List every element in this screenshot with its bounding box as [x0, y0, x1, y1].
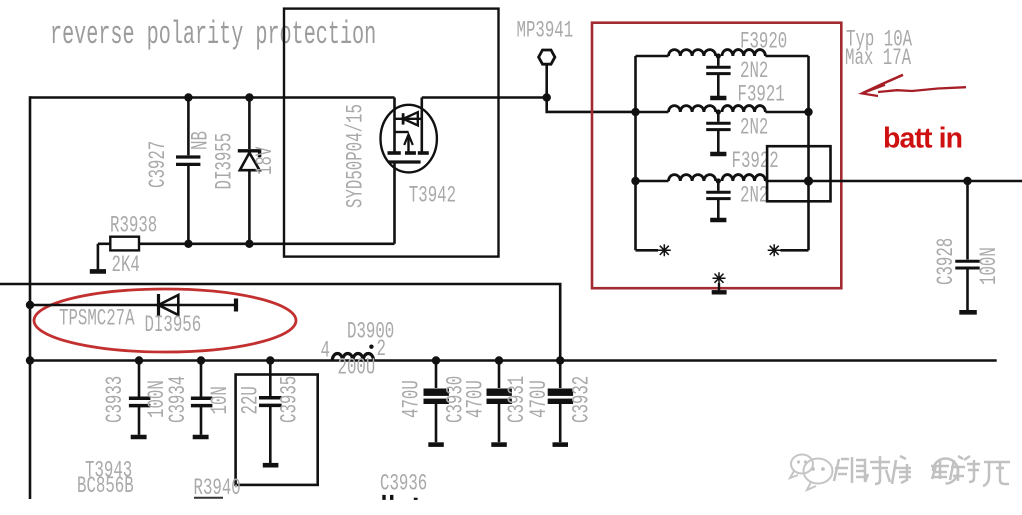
- svg-text:470U: 470U: [526, 380, 552, 418]
- svg-text:TPSMC27A: TPSMC27A: [59, 306, 135, 332]
- inductor D3900: [332, 345, 373, 361]
- label 2N2 row3: [740, 183, 768, 209]
- label T3943: [85, 458, 132, 484]
- wire: filter right rail: [807, 56, 810, 250]
- connector MP3941 hexagon: [539, 50, 555, 64]
- svg-text:C3934: C3934: [165, 376, 191, 423]
- label F3921: [738, 82, 785, 108]
- inductor F3922 row3: [636, 175, 766, 181]
- label 10N: [207, 386, 233, 414]
- label BC856B: [77, 473, 134, 499]
- wire: jog down from MP3941 node to filter row 2: [547, 98, 636, 112]
- zener diode D13955 18V: [238, 98, 260, 244]
- svg-text:batt in: batt in: [883, 123, 962, 155]
- capacitor C3928: [955, 181, 979, 312]
- label D3900: [347, 319, 394, 345]
- label C3934: [165, 376, 191, 423]
- black box on F3922 output: [767, 146, 830, 201]
- svg-text:2K4: 2K4: [112, 252, 140, 278]
- label pin 2: [377, 336, 386, 362]
- red highlight ellipse: [34, 289, 296, 352]
- label C3935: [277, 376, 303, 423]
- svg-text:DI3956: DI3956: [145, 312, 202, 338]
- capacitor C3934: [191, 356, 213, 437]
- node: C3927 bottom: [184, 240, 192, 248]
- label C3936: [380, 471, 427, 497]
- label F3922: [732, 148, 779, 174]
- label MP3941: [517, 18, 574, 44]
- watermark icon speech bubbles: [790, 455, 834, 492]
- component outline box for MOSFET module T3942: [284, 9, 499, 257]
- node: bottom bus left: [26, 356, 34, 364]
- label C3928: [933, 238, 959, 285]
- node: row2 right rail: [804, 108, 812, 116]
- label SYD50P04/15: [343, 104, 369, 208]
- node: C3927 top: [184, 93, 192, 101]
- wire: filter right bottom stub: [781, 249, 809, 252]
- label 18V: [252, 146, 278, 175]
- svg-text:C3933: C3933: [102, 376, 128, 423]
- capacitor C3933: [129, 356, 151, 437]
- svg-text:Max 17A: Max 17A: [845, 45, 911, 71]
- svg-text:C3935: C3935: [277, 376, 303, 423]
- svg-text:reverse polarity protection: reverse polarity protection: [50, 17, 376, 54]
- svg-text:470U: 470U: [399, 380, 425, 418]
- label 2K4: [112, 252, 140, 278]
- label 100N c3933: [144, 380, 170, 418]
- label 100N c3928: [976, 247, 1002, 285]
- capacitor C3935: [259, 356, 282, 465]
- net flag asterisk bottom center: [712, 272, 727, 292]
- label DI3955: [212, 133, 238, 190]
- capacitor 2N2 row1: [706, 53, 730, 98]
- svg-text:C3932: C3932: [569, 376, 595, 423]
- capacitor C3931 electrolytic: [487, 356, 512, 444]
- svg-text:18V: 18V: [252, 146, 278, 175]
- wire: filter left bottom stub: [636, 249, 659, 252]
- svg-text:200U: 200U: [338, 355, 376, 381]
- label 470U c3932: [526, 380, 552, 418]
- wire: left vertical rail x=30: [29, 96, 32, 499]
- svg-text:F3922: F3922: [732, 148, 779, 174]
- label Max 17A: [845, 45, 911, 71]
- wire: bottom bus y=360.5: [30, 359, 997, 362]
- label 22U: [238, 386, 264, 414]
- capacitor 2N2 row2: [706, 109, 730, 154]
- watermark text zhihu handle: [834, 456, 1012, 488]
- label C3930: [443, 376, 469, 423]
- wire: filter left rail: [634, 56, 637, 250]
- capacitor 2N2 row3: [706, 178, 730, 220]
- wire: MP3941 connector drop: [545, 65, 548, 98]
- svg-text:F3920: F3920: [740, 29, 787, 55]
- label R3940: [194, 475, 241, 501]
- inductor F3920 row1: [636, 50, 809, 56]
- red highlight box around EMI filter: [592, 23, 841, 289]
- label 200U: [338, 355, 376, 381]
- svg-text:2: 2: [377, 336, 386, 362]
- svg-text:DI3955: DI3955: [212, 133, 238, 190]
- label batt in: [883, 123, 962, 155]
- ground for R3938: [90, 244, 106, 272]
- transistor T3942 P-MOSFET symbol: [381, 98, 437, 244]
- wire: main top rail y=97.5 from left corner to MOSFET drain: [30, 96, 395, 99]
- inductor F3921 row2: [636, 106, 809, 112]
- title text: reverse polarity protection: [50, 17, 376, 54]
- svg-text:NB: NB: [188, 131, 214, 150]
- capacitor C3930 electrolytic: [424, 356, 449, 444]
- svg-text:10N: 10N: [207, 386, 233, 414]
- label F3920: [740, 29, 787, 55]
- svg-text:T3942: T3942: [409, 183, 456, 209]
- svg-text:SYD50P04/15: SYD50P04/15: [343, 104, 369, 208]
- svg-text:D3900: D3900: [347, 319, 394, 345]
- svg-text:C3936: C3936: [380, 471, 427, 497]
- node: D13955 bottom: [245, 240, 253, 248]
- svg-text:R3938: R3938: [110, 213, 157, 239]
- node: row3 right rail: [804, 176, 813, 185]
- svg-text:F3921: F3921: [738, 82, 785, 108]
- wire: MOSFET source to MP3941 junction: [422, 96, 547, 99]
- label C3927: [145, 141, 171, 188]
- label NB: [188, 131, 214, 150]
- partial component pins below C3936: [382, 495, 417, 500]
- svg-text:MP3941: MP3941: [517, 18, 574, 44]
- node: MP3941 junction: [543, 93, 551, 101]
- net flag asterisk left: [658, 244, 671, 256]
- red hand-drawn arrow: [862, 75, 966, 96]
- node: row3 left rail: [631, 177, 639, 185]
- wire: R3940 underline stub: [194, 497, 223, 499]
- svg-text:2N2: 2N2: [740, 58, 768, 84]
- label DI3956: [145, 312, 202, 338]
- wire: mid bus y=284: [0, 284, 560, 361]
- svg-text:C3928: C3928: [933, 238, 959, 285]
- node: C3928 top: [963, 177, 971, 185]
- svg-text:100N: 100N: [976, 247, 1002, 285]
- svg-text:470U: 470U: [463, 380, 489, 418]
- svg-text:22U: 22U: [238, 386, 264, 414]
- label C3932: [569, 376, 595, 423]
- diode DI3956: [30, 294, 236, 316]
- svg-text:2N2: 2N2: [740, 115, 768, 141]
- label TPSMC27A: [59, 306, 135, 332]
- net flag asterisk right: [768, 244, 781, 256]
- label 2N2 row2: [740, 115, 768, 141]
- svg-text:C3927: C3927: [145, 141, 171, 188]
- label C3931: [504, 376, 530, 423]
- box around C3935: [236, 375, 318, 485]
- label R3938: [110, 213, 157, 239]
- label Typ 10A: [846, 27, 912, 53]
- label pin 4: [321, 338, 330, 364]
- label 470U c3931: [463, 380, 489, 418]
- label T3942: [409, 183, 456, 209]
- resistor R3938: [98, 237, 395, 251]
- capacitor C3927: [176, 98, 200, 244]
- wire: batt in line row3 to right edge: [765, 180, 1022, 183]
- node: row2 left rail: [631, 108, 639, 116]
- label 2N2 row1: [740, 58, 768, 84]
- svg-text:2N2: 2N2: [740, 183, 768, 209]
- node: DI3956 anode at left rail: [26, 301, 34, 309]
- label 470U c3930: [399, 380, 425, 418]
- node: D13955 top: [245, 93, 253, 101]
- label C3933: [102, 376, 128, 423]
- svg-text:4: 4: [321, 338, 330, 364]
- svg-text:BC856B: BC856B: [77, 473, 134, 499]
- capacitor C3932 electrolytic: [548, 356, 573, 444]
